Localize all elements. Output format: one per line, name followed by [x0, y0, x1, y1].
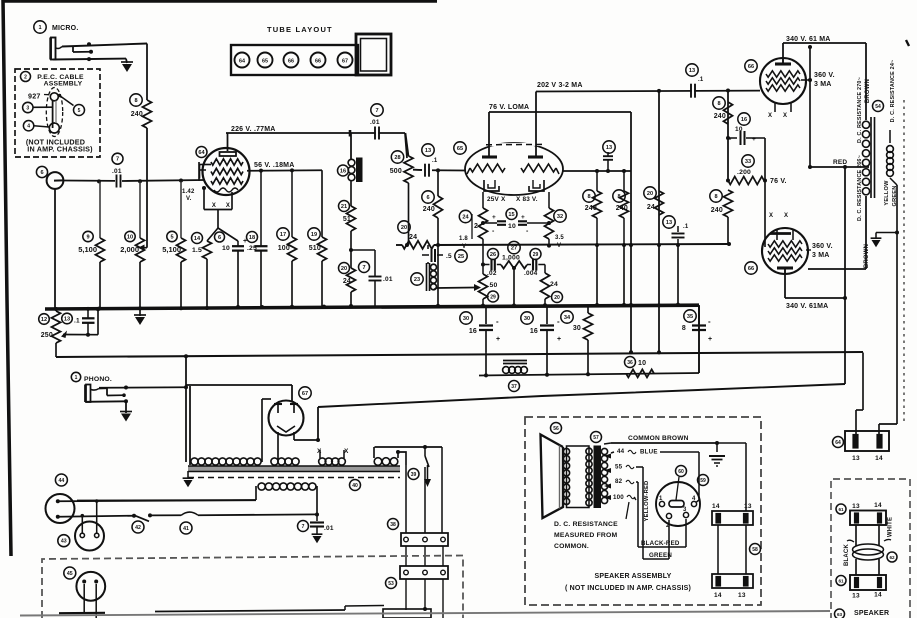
svg-text:BROWN: BROWN: [865, 79, 871, 103]
svg-text:37: 37: [511, 384, 517, 390]
svg-text:4: 4: [692, 496, 696, 502]
svg-text:WHITE: WHITE: [888, 517, 894, 537]
svg-text:13: 13: [64, 317, 70, 323]
svg-text:+: +: [557, 336, 561, 343]
svg-text:66: 66: [748, 266, 754, 272]
svg-text:1: 1: [75, 375, 78, 381]
svg-text:BLUE: BLUE: [640, 449, 658, 456]
svg-text:+: +: [708, 336, 712, 343]
svg-text:5,100: 5,100: [78, 245, 97, 254]
svg-text:7: 7: [302, 524, 305, 530]
svg-text:+: +: [752, 136, 756, 143]
svg-text:.200: .200: [737, 169, 751, 176]
svg-text:.01: .01: [370, 119, 380, 126]
svg-text:X: X: [226, 203, 230, 209]
svg-text:40: 40: [352, 483, 358, 489]
svg-text:YELLOW: YELLOW: [884, 180, 890, 206]
svg-text:21: 21: [341, 204, 347, 210]
svg-text:MEASURED FROM: MEASURED FROM: [554, 532, 618, 539]
svg-text:X: X: [769, 213, 773, 219]
svg-text:360 V.: 360 V.: [812, 243, 833, 250]
svg-text:7: 7: [116, 157, 119, 163]
svg-text:29: 29: [490, 295, 496, 301]
svg-text:17: 17: [280, 232, 286, 238]
svg-text:13: 13: [852, 503, 860, 510]
svg-text:.02: .02: [487, 270, 497, 277]
svg-text:44: 44: [59, 478, 65, 484]
svg-text:16: 16: [340, 169, 346, 175]
svg-text:-: -: [708, 317, 711, 326]
svg-text:58: 58: [752, 547, 758, 553]
svg-text:62: 62: [889, 555, 895, 560]
svg-text:55: 55: [615, 464, 623, 471]
svg-text:56 V. .18MA: 56 V. .18MA: [254, 162, 294, 169]
svg-text:50: 50: [490, 282, 498, 289]
svg-text:500: 500: [390, 168, 402, 175]
svg-text:X: X: [212, 203, 216, 209]
svg-text:MICRO.: MICRO.: [52, 25, 78, 32]
svg-text:10: 10: [638, 360, 646, 367]
svg-text:57: 57: [593, 435, 599, 441]
svg-text:.5: .5: [446, 253, 452, 260]
svg-text:8: 8: [682, 325, 686, 332]
svg-text:65: 65: [262, 58, 268, 64]
svg-text:66: 66: [288, 58, 294, 64]
svg-text:16: 16: [530, 328, 538, 335]
svg-text:20: 20: [647, 191, 653, 197]
svg-text:25: 25: [458, 254, 464, 260]
svg-text:340 V. 61 MA: 340 V. 61 MA: [786, 36, 831, 43]
svg-text:X: X: [783, 113, 787, 119]
svg-text:13: 13: [606, 145, 612, 151]
svg-text:13: 13: [744, 503, 752, 510]
svg-text:6: 6: [40, 170, 43, 176]
svg-text:D. C. RESISTANCE 266~: D. C. RESISTANCE 266~: [857, 155, 863, 221]
svg-text:64: 64: [198, 150, 205, 156]
svg-text:13: 13: [425, 148, 431, 154]
svg-text:15: 15: [508, 212, 514, 218]
svg-text:20: 20: [341, 266, 347, 272]
svg-text:D. C. RESISTANCE 24~: D. C. RESISTANCE 24~: [890, 60, 896, 123]
svg-text:35: 35: [687, 314, 693, 320]
svg-text:14: 14: [712, 503, 720, 510]
svg-text:9: 9: [86, 235, 89, 241]
svg-text:927: 927: [28, 92, 41, 101]
svg-text:7: 7: [375, 108, 378, 114]
svg-text:10: 10: [508, 223, 516, 230]
svg-text:76 V. LOMA: 76 V. LOMA: [489, 104, 529, 111]
svg-text:12: 12: [41, 317, 47, 323]
svg-text:YELLOW-RED: YELLOW-RED: [644, 481, 650, 522]
svg-text:16: 16: [741, 117, 747, 123]
svg-text:13: 13: [738, 592, 746, 599]
svg-text:19: 19: [311, 232, 317, 238]
svg-text:8: 8: [134, 98, 137, 104]
svg-text:240: 240: [711, 207, 723, 214]
svg-text:V.: V.: [186, 196, 192, 202]
svg-text:202 V 3-2 MA: 202 V 3-2 MA: [537, 82, 583, 89]
svg-text:64: 64: [835, 440, 841, 446]
svg-text:( NOT INCLUDED IN AMP. CHA: ( NOT INCLUDED IN AMP. CHASSIS): [565, 585, 691, 592]
svg-text:5: 5: [170, 235, 173, 241]
svg-text:5: 5: [78, 108, 81, 114]
svg-text:100: 100: [613, 494, 624, 501]
svg-text:.1: .1: [74, 318, 80, 325]
svg-text:IN AMP. CHASSIS): IN AMP. CHASSIS): [27, 145, 93, 154]
svg-text:6: 6: [426, 195, 429, 201]
svg-text:13: 13: [852, 593, 860, 600]
svg-text:COMMON.: COMMON.: [554, 543, 589, 550]
svg-text:ASSEMBLY: ASSEMBLY: [44, 81, 83, 88]
svg-text:226 V. .77MA: 226 V. .77MA: [231, 126, 276, 133]
svg-text:67: 67: [302, 391, 308, 397]
svg-text:63: 63: [837, 612, 843, 617]
svg-text:30: 30: [524, 316, 530, 322]
svg-text:.1: .1: [432, 158, 438, 164]
svg-text:59: 59: [700, 478, 706, 484]
svg-text:8: 8: [717, 101, 720, 107]
svg-text:29: 29: [533, 252, 539, 258]
svg-text:D. C. RESISTANCE: D. C. RESISTANCE: [554, 521, 618, 528]
svg-text:60: 60: [678, 469, 684, 475]
svg-text:100: 100: [278, 245, 290, 252]
svg-text:41: 41: [183, 526, 189, 532]
svg-text:13: 13: [666, 220, 672, 226]
svg-text:28: 28: [394, 155, 400, 161]
svg-text:X: X: [784, 213, 788, 219]
svg-text:BLACK-RED: BLACK-RED: [641, 540, 680, 547]
svg-text:24: 24: [550, 281, 558, 288]
svg-text:.1: .1: [683, 224, 689, 230]
svg-text:D. C. RESISTANCE 270~: D. C. RESISTANCE 270~: [857, 77, 863, 143]
svg-text:PHONO.: PHONO.: [84, 376, 112, 383]
svg-text:14: 14: [714, 592, 722, 599]
svg-text:6: 6: [218, 235, 221, 241]
svg-text:44: 44: [617, 448, 625, 455]
svg-text:26: 26: [490, 252, 496, 258]
svg-text:33: 33: [745, 159, 751, 165]
svg-text:38: 38: [390, 522, 396, 528]
svg-text:25V X: 25V X: [487, 196, 506, 203]
svg-text:14: 14: [874, 592, 882, 599]
svg-text:67: 67: [342, 58, 348, 64]
svg-text:64: 64: [239, 58, 245, 64]
svg-text:27: 27: [511, 246, 517, 252]
svg-text:45: 45: [67, 571, 73, 577]
svg-text:COMMON BROWN: COMMON BROWN: [628, 435, 689, 442]
svg-text:8: 8: [714, 194, 717, 200]
svg-text:340 V. 61MA: 340 V. 61MA: [786, 303, 828, 310]
svg-text:14: 14: [194, 236, 201, 242]
svg-text:20: 20: [554, 295, 560, 301]
svg-text:66: 66: [748, 64, 754, 70]
svg-text:SPEAKER ASSEMBLY: SPEAKER ASSEMBLY: [595, 573, 672, 580]
svg-text:SPEAKER: SPEAKER: [854, 610, 889, 617]
svg-text:TUBE LAYOUT: TUBE LAYOUT: [267, 25, 333, 34]
svg-text:32: 32: [557, 214, 563, 220]
svg-text:30: 30: [573, 325, 581, 332]
svg-text:+: +: [496, 336, 500, 343]
svg-text:23: 23: [414, 277, 420, 283]
svg-text:+: +: [492, 214, 496, 221]
svg-text:240: 240: [131, 111, 143, 118]
svg-text:54: 54: [875, 104, 881, 110]
svg-text:1.8: 1.8: [459, 236, 468, 242]
svg-text:76 V.: 76 V.: [770, 178, 787, 185]
svg-text:16: 16: [469, 328, 477, 335]
svg-text:36: 36: [627, 360, 633, 366]
svg-text:61: 61: [838, 579, 844, 584]
svg-text:-: -: [557, 317, 560, 326]
svg-text:13: 13: [852, 455, 860, 462]
svg-text:RED: RED: [833, 159, 847, 166]
svg-text:240: 240: [423, 206, 435, 213]
svg-text:.1: .1: [698, 77, 704, 83]
svg-text:82: 82: [615, 478, 623, 485]
svg-text:39: 39: [411, 472, 417, 478]
svg-text:30: 30: [463, 316, 469, 322]
svg-text:2: 2: [24, 75, 27, 81]
svg-text:24: 24: [462, 215, 469, 221]
svg-text:.004: .004: [524, 270, 538, 277]
svg-text:GREEN: GREEN: [649, 552, 672, 559]
svg-text:13: 13: [689, 68, 695, 74]
svg-text:56: 56: [553, 426, 559, 432]
svg-text:34: 34: [564, 315, 571, 321]
svg-text:BROWN: BROWN: [864, 244, 870, 268]
svg-text:.01: .01: [383, 276, 393, 283]
svg-text:1: 1: [659, 496, 663, 502]
svg-text:8: 8: [587, 194, 590, 200]
svg-text:14: 14: [874, 502, 882, 509]
svg-text:53: 53: [388, 581, 394, 587]
svg-text:1.42: 1.42: [182, 189, 195, 195]
svg-text:7: 7: [362, 265, 365, 271]
svg-text:18: 18: [249, 235, 255, 241]
svg-text:-: -: [496, 317, 499, 326]
svg-text:240: 240: [714, 113, 726, 120]
svg-text:1.5: 1.5: [192, 247, 202, 254]
svg-text:3 MA: 3 MA: [814, 81, 832, 88]
svg-text:360 V.: 360 V.: [814, 72, 835, 79]
svg-text:20: 20: [401, 225, 407, 231]
svg-text:65: 65: [457, 146, 463, 152]
svg-text:.01: .01: [112, 168, 122, 175]
svg-text:10: 10: [127, 235, 133, 241]
svg-text:42: 42: [135, 525, 141, 531]
svg-text:14: 14: [875, 455, 883, 462]
svg-text:66: 66: [315, 58, 321, 64]
svg-text:61: 61: [838, 507, 844, 512]
svg-text:1: 1: [38, 25, 41, 31]
svg-text:3: 3: [26, 106, 29, 112]
svg-text:3: 3: [683, 507, 687, 513]
svg-text:4: 4: [27, 124, 30, 130]
svg-text:+: +: [521, 214, 525, 221]
svg-text:1,000: 1,000: [502, 255, 520, 262]
svg-text:X 83 V.: X 83 V.: [516, 196, 538, 203]
svg-text:3 MA: 3 MA: [812, 252, 830, 259]
svg-text:10: 10: [222, 245, 230, 252]
svg-text:24: 24: [409, 234, 417, 241]
svg-text:3.5: 3.5: [555, 235, 564, 241]
svg-text:10: 10: [735, 126, 743, 133]
svg-text:BLACK: BLACK: [844, 544, 850, 566]
svg-text:.01: .01: [324, 525, 334, 532]
svg-text:X: X: [768, 113, 772, 119]
svg-text:43: 43: [61, 539, 67, 545]
